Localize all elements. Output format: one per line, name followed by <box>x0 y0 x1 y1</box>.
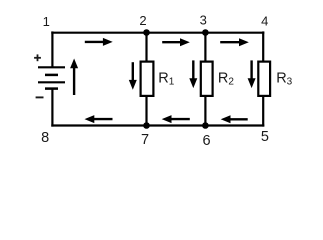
wire branch 4 lower: R3 to node 5 <box>262 96 264 127</box>
svg-text:3: 3 <box>200 13 207 28</box>
svg-text:1: 1 <box>43 14 50 29</box>
wire left branch lower: battery negative plate to node 8 <box>51 89 53 127</box>
node 7 junction dot <box>143 122 150 129</box>
wire branch 2 lower: R1 to node 7 <box>145 96 147 126</box>
wire branch 2 upper: node 2 to R1 <box>145 33 147 62</box>
wire branch 3 lower: R2 to node 6 <box>204 96 206 126</box>
current arrow left (bottom, node 6 to 7) <box>162 115 190 123</box>
svg-text:5: 5 <box>261 129 269 145</box>
svg-text:4: 4 <box>261 14 268 29</box>
wire bottom rail: node 8 to node 5 <box>51 124 264 126</box>
current arrow down (R1 branch) <box>129 62 137 89</box>
node 2 junction dot <box>143 29 150 36</box>
battery polarity label - <box>36 96 44 98</box>
resistor R1 <box>141 62 154 96</box>
current arrow right (top, node 2 to 3) <box>162 38 190 46</box>
svg-text:8: 8 <box>41 130 49 146</box>
node 6 junction dot <box>202 122 209 129</box>
current arrow down (R2 branch) <box>189 60 197 88</box>
svg-text:7: 7 <box>141 132 149 148</box>
svg-text:2: 2 <box>139 13 146 28</box>
current arrow down (R3 branch) <box>248 60 256 88</box>
wire branch 4 upper: node 4 to R3 <box>262 31 264 61</box>
current arrow up (battery branch) <box>70 59 78 96</box>
battery polarity label + <box>34 54 41 61</box>
wire left branch upper: node 1 to battery positive plate <box>51 31 53 67</box>
wire branch 3 upper: node 3 to R2 <box>204 33 206 62</box>
resistor R3 <box>258 62 270 96</box>
current arrow left (bottom, node 7 to 8) <box>85 115 113 123</box>
resistor R2 <box>201 62 213 96</box>
battery cell symbol <box>38 67 65 88</box>
current arrow right (top, node 1 to 2) <box>85 38 113 46</box>
wire top rail: node 1 to node 4 <box>51 32 264 34</box>
current arrow right (top, node 3 to 4) <box>220 38 249 46</box>
current arrow left (bottom, node 5 to 6) <box>221 115 248 123</box>
svg-text:6: 6 <box>202 133 210 149</box>
node 3 junction dot <box>202 29 209 36</box>
